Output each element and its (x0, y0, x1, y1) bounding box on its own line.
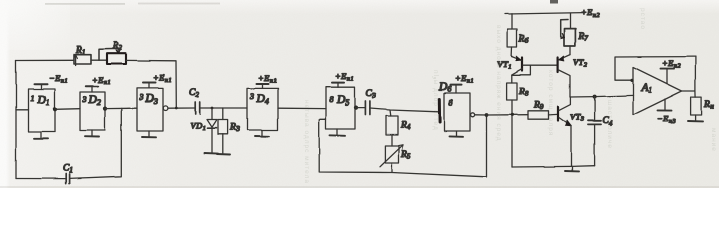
wire C3 to D6 with R4 junction (370, 109, 439, 112)
svg-text:мание: мание (710, 128, 717, 152)
svg-text:R8: R8 (518, 87, 529, 98)
IC D6 (438, 81, 470, 131)
IC D5 (326, 87, 355, 129)
ground bar below D5 (330, 129, 345, 136)
wire bottom left to bus (16, 178, 66, 180)
resistor R3 (218, 108, 240, 153)
wire input stub into D1 (16, 109, 29, 111)
wire R1 to R2 (91, 59, 107, 61)
ground bar below D3 (142, 131, 156, 137)
svg-text:R4: R4 (400, 121, 411, 132)
resistor R9 (528, 101, 557, 120)
svg-text:R6: R6 (518, 34, 529, 45)
svg-text:8: 8 (330, 95, 334, 104)
power +Eп2 at A1 (661, 58, 682, 84)
svg-text:Rн: Rн (704, 100, 715, 111)
svg-text:8: 8 (449, 98, 453, 107)
power -Eп1 at D1 (35, 73, 69, 89)
diode VD1 (191, 107, 218, 153)
resistor R5 (trimmer) (380, 135, 411, 172)
node C4 junction (593, 95, 597, 99)
node D6 output bubble and junction (471, 113, 528, 117)
capacitor C1 (63, 164, 73, 184)
svg-text:рстао: рстао (639, 8, 646, 30)
wire top feedback from bus to R1 (16, 59, 74, 61)
ground bar below D1 (34, 132, 48, 139)
wire collector node to op-amp input (570, 95, 633, 97)
transistor VT3 (558, 97, 585, 166)
svg-text:1: 1 (31, 94, 35, 103)
wire feedback loop around A1 (615, 57, 695, 82)
resistor R2 (trimmer) (99, 41, 126, 64)
paper shading patches (0, 0, 719, 14)
capacitor C2 (189, 88, 200, 114)
svg-text:3: 3 (82, 95, 87, 104)
wire A1 output (682, 57, 696, 97)
svg-text:R5: R5 (401, 150, 412, 161)
ground bar below R3 (217, 153, 230, 156)
wire left vertical bus (15, 61, 17, 179)
ground bar below D2 (85, 130, 99, 137)
ground bar below D6 (449, 131, 463, 137)
power +Eп1 at D3 (143, 73, 173, 89)
svg-text:нетыва одлрс митела: нетыва одлрс митела (303, 100, 310, 184)
power +Eп1 at D5 (332, 71, 354, 87)
svg-text:C1: C1 (63, 164, 73, 175)
resistor R7 (trimmer) (560, 13, 588, 54)
IC D3 (137, 88, 163, 131)
wire D5 feedback loop to D6 output node (319, 115, 486, 177)
node D2 output junction (103, 107, 137, 111)
wire C1 branch: drop, bottom run and capacitor C1 (70, 108, 122, 178)
wire bottom rail of transistor stage (512, 166, 595, 167)
svg-text:C2: C2 (189, 88, 199, 99)
svg-text:R1: R1 (75, 46, 85, 57)
svg-text:котор смщ налря: котор смщ налря (547, 70, 554, 136)
ground bar below VD1 (205, 152, 218, 155)
svg-text:R7: R7 (578, 32, 589, 43)
capacitor C3 (365, 89, 376, 115)
power +Eп1 at D6 (451, 73, 475, 93)
node D5 output junction (354, 106, 365, 110)
resistor R4 (386, 110, 411, 135)
svg-text:R3: R3 (229, 123, 240, 134)
svg-text:шастс оличе: шастс оличе (606, 100, 613, 149)
svg-text:пواы длор нгтед: пواы длор нгтед (432, 70, 440, 131)
svg-text:R2: R2 (112, 41, 123, 52)
svg-text:выхо дного напряж ения сред: выхо дного напряж ения сред (495, 25, 502, 142)
wire R2 to D3 output node (126, 60, 176, 107)
node D3 output bubble (163, 106, 195, 111)
resistor Rn load (691, 97, 715, 121)
D6 input bar (438, 99, 441, 122)
faint bleed-through text columns (303, 8, 717, 184)
resistor R8 (507, 83, 529, 167)
node D1 output junction (53, 107, 80, 111)
resistor R1 (74, 46, 91, 66)
ground bar below D4 (255, 130, 269, 136)
wire C2 to D4 (200, 107, 247, 109)
svg-text:3: 3 (249, 92, 254, 101)
ground bar below Rn (688, 120, 703, 122)
transistor VT1 (diode connected) (498, 56, 531, 83)
IC D2 (80, 92, 105, 130)
capacitor C4 (588, 97, 613, 166)
IC D4 (247, 88, 278, 130)
IC D1 (29, 89, 56, 132)
power +Eп1 at D4 (257, 73, 278, 88)
wire VT1 base to VT2 base (530, 64, 556, 66)
power +Eп1 at D2 (86, 75, 111, 93)
ground symbol on rail (565, 166, 579, 171)
op-amp A1 (633, 67, 682, 115)
svg-text:3: 3 (139, 93, 144, 102)
wire D4 to D5 (278, 107, 326, 109)
svg-text:R9: R9 (533, 101, 544, 112)
transistor VT2 (558, 55, 588, 97)
power -Eп3 at A1 (657, 99, 676, 125)
resistor R6 (508, 14, 529, 57)
wire +Eп2 top rail (505, 7, 600, 19)
faint top smudge (scan artifact) (45, 3, 125, 5)
